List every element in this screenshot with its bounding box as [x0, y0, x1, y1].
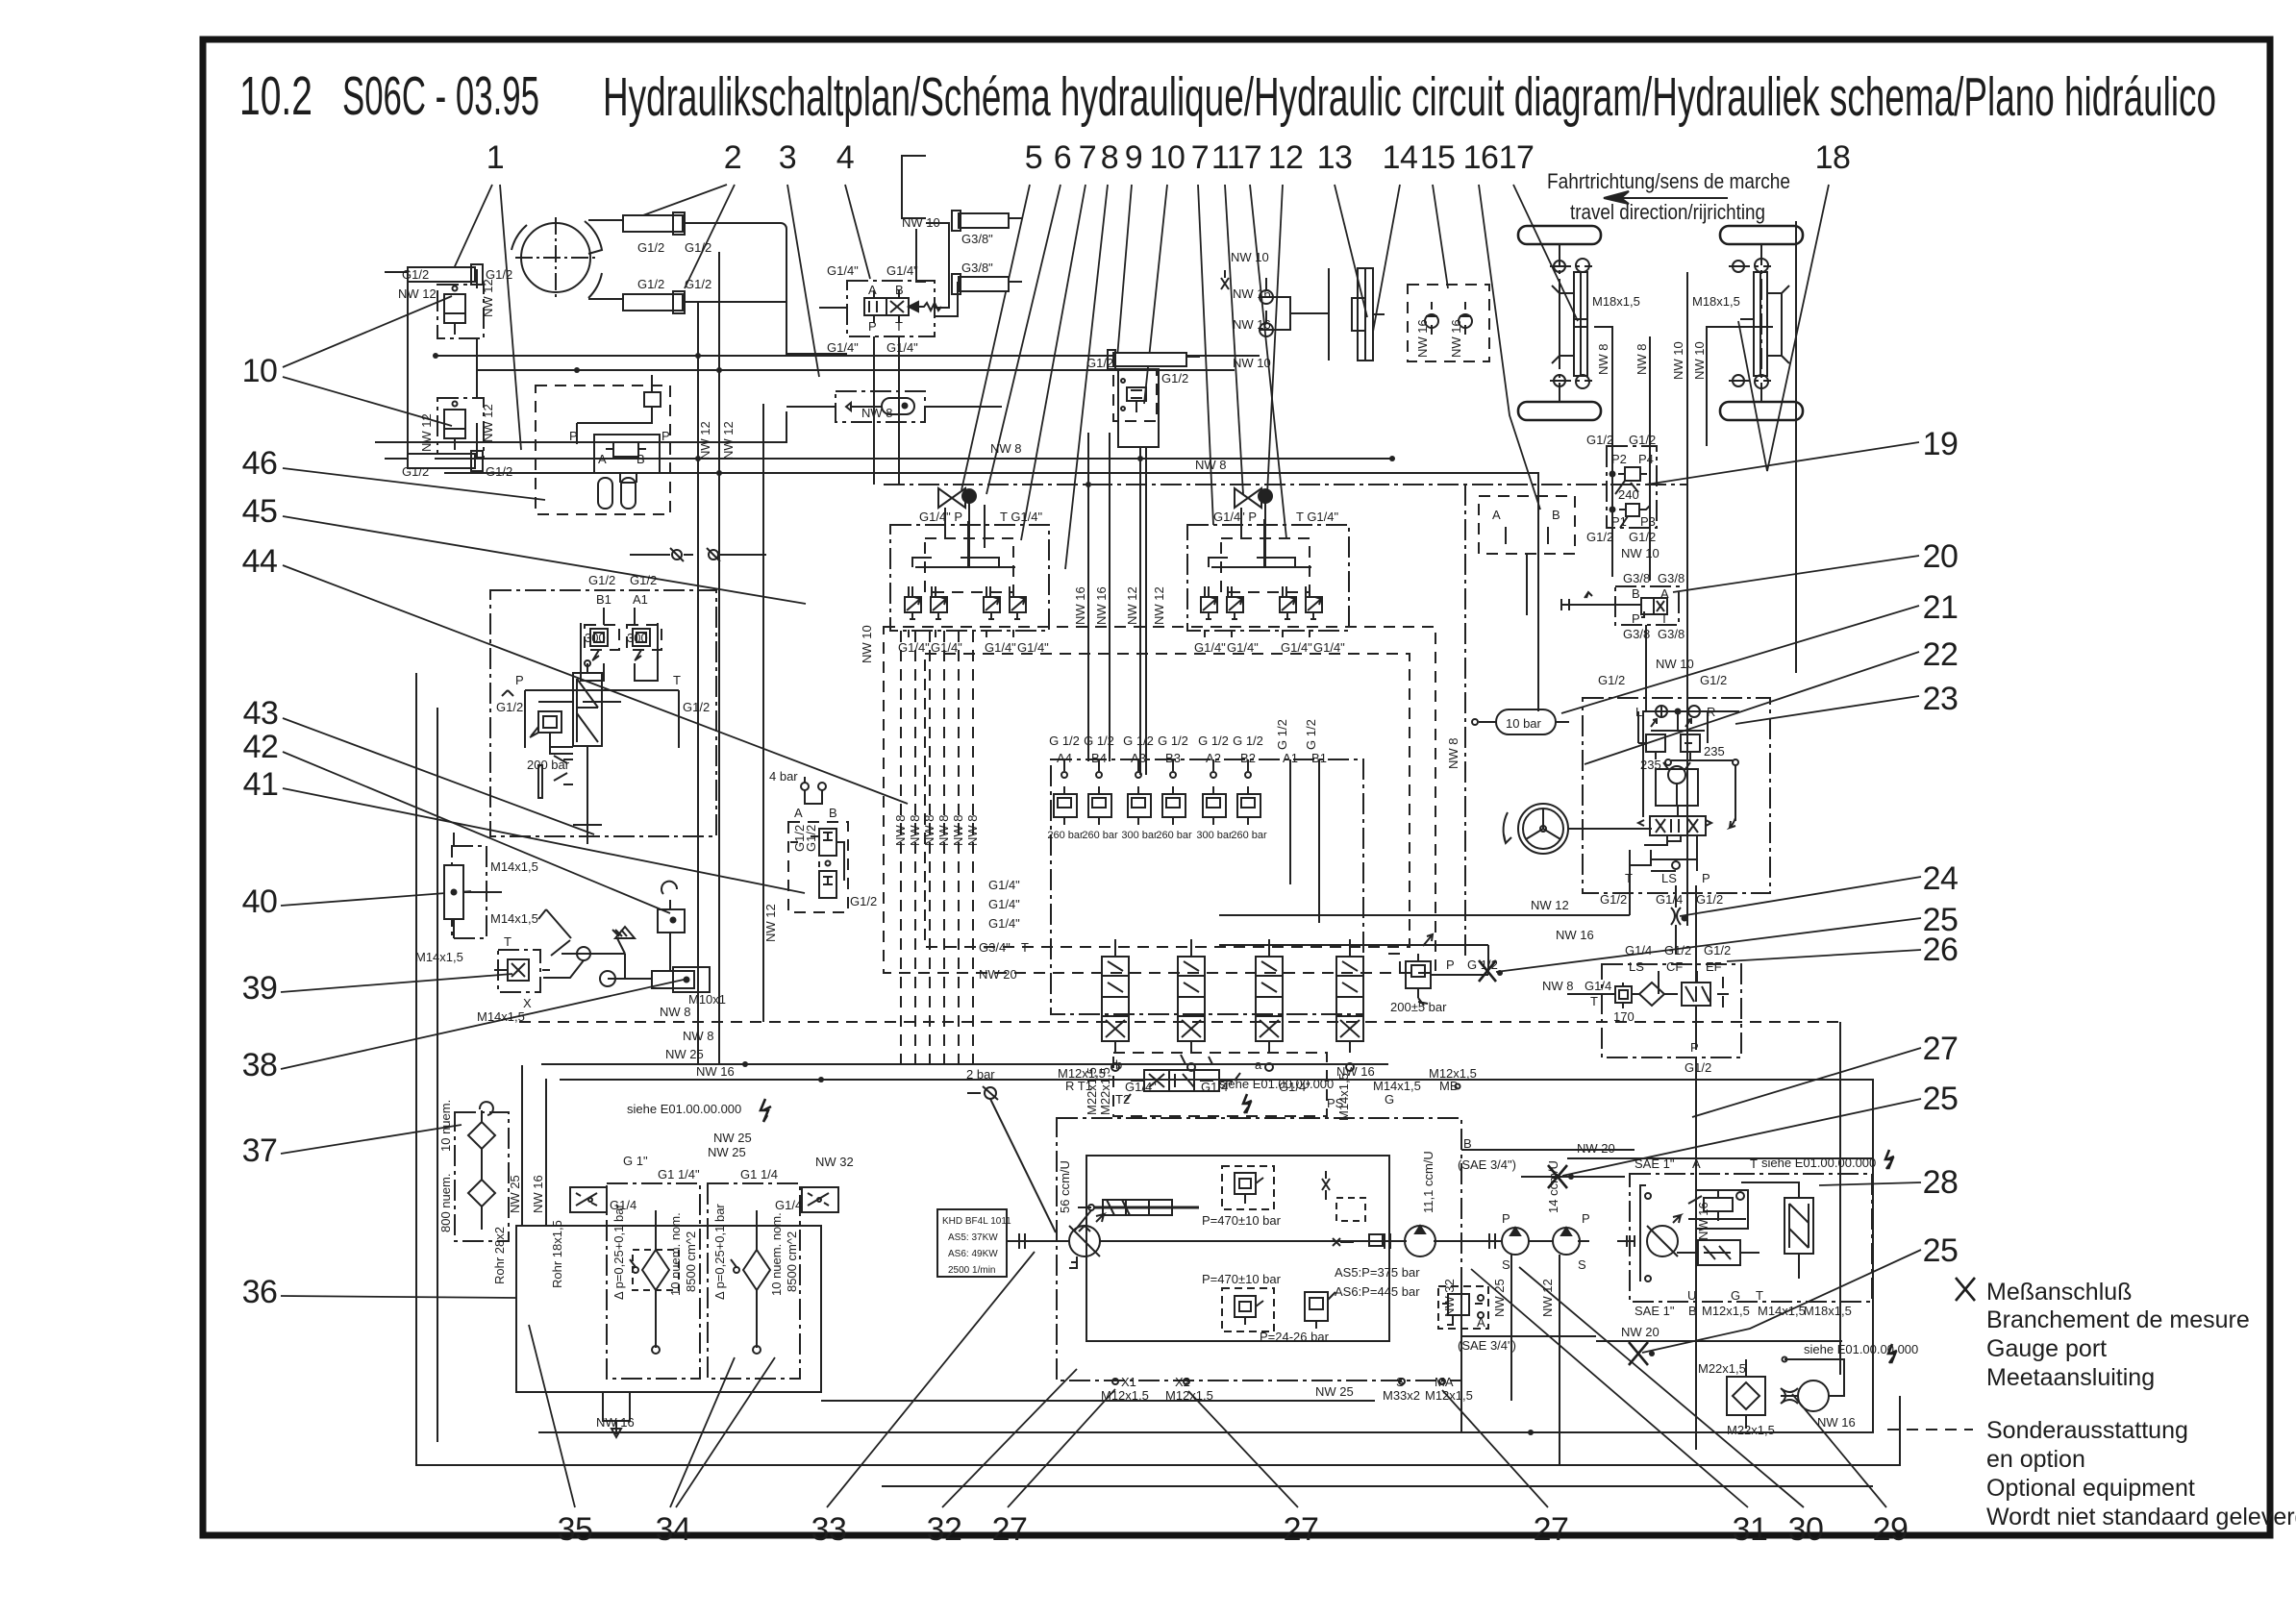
svg-text:NW 8: NW 8: [908, 815, 922, 847]
svg-text:NW 16: NW 16: [1233, 286, 1271, 301]
svg-text:NW 12: NW 12: [1531, 898, 1569, 912]
cylinder 2 bottom: [588, 291, 685, 313]
svg-text:10 nuem. nom.: 10 nuem. nom.: [668, 1212, 683, 1296]
svg-text:G1/2: G1/2: [1704, 943, 1731, 958]
svg-text:G1/4": G1/4": [886, 340, 918, 355]
svg-text:45: 45: [242, 493, 278, 530]
svg-text:NW 8: NW 8: [893, 815, 908, 847]
svg-text:NW 16: NW 16: [531, 1175, 545, 1213]
LS line ports: [1630, 835, 1697, 885]
svg-text:A1: A1: [633, 592, 648, 607]
svg-text:G1/2: G1/2: [1586, 530, 1613, 544]
svg-text:AS5: 37KW: AS5: 37KW: [948, 1232, 998, 1243]
svg-text:44: 44: [242, 543, 278, 580]
svg-text:Rohr 18x1,5: Rohr 18x1,5: [550, 1220, 564, 1288]
svg-text:Fahrtrichtung/sens de marche: Fahrtrichtung/sens de marche: [1547, 169, 1790, 193]
svg-text:T: T: [1660, 611, 1668, 626]
wire left inner rail: [437, 708, 438, 1442]
svg-text:42: 42: [243, 729, 279, 765]
svg-text:P: P: [1690, 1040, 1699, 1055]
wire NW20 right: [1567, 1157, 1873, 1159]
svg-text:(SAE 3/4"): (SAE 3/4"): [1458, 1157, 1516, 1172]
wire NW8 upper: [435, 458, 1391, 460]
svg-text:8500 cm^2: 8500 cm^2: [684, 1231, 698, 1292]
svg-text:M18x1,5: M18x1,5: [1692, 294, 1740, 309]
svg-text:NW 12: NW 12: [721, 421, 736, 460]
piping top-left: [408, 156, 958, 459]
svg-text:G1/4": G1/4": [1281, 640, 1312, 655]
svg-text:4 bar: 4 bar: [769, 769, 798, 784]
svg-text:SAE 1": SAE 1": [1635, 1304, 1675, 1318]
svg-text:P=24-26 bar: P=24-26 bar: [1260, 1330, 1330, 1344]
svg-text:33: 33: [811, 1511, 847, 1548]
steering column: [1568, 828, 1652, 830]
svg-text:20: 20: [1923, 538, 1959, 575]
wire risers 46 box: [577, 375, 652, 438]
svg-text:T: T: [1590, 994, 1598, 1008]
svg-text:A: A: [1492, 508, 1501, 522]
svg-text:T G1/4": T G1/4": [1000, 510, 1043, 524]
svg-text:G1/2: G1/2: [1586, 433, 1613, 447]
trailer valve B/A (item 20): [1615, 586, 1679, 625]
svg-text:36: 36: [242, 1274, 278, 1310]
svg-text:P: P: [515, 673, 524, 687]
legend gauge port: [1956, 1278, 1975, 1301]
svg-text:LS: LS: [1661, 871, 1677, 885]
svg-text:32: 32: [927, 1511, 962, 1548]
hand pump unit 46 dashed box: [536, 386, 670, 514]
svg-text:M22x1,5: M22x1,5: [1727, 1423, 1775, 1437]
relief valve bottom: [1222, 1288, 1274, 1331]
wire NW8 dash-dot drop: [1464, 485, 1466, 957]
svg-text:M14x1,5: M14x1,5: [415, 950, 463, 964]
option dashed enclosure outer: [884, 627, 1435, 973]
svg-text:T: T: [1625, 871, 1633, 885]
svg-text:G1/4": G1/4": [1313, 640, 1345, 655]
brake valve P2 P4: [1607, 446, 1657, 528]
cylinder item 9: [1108, 350, 1200, 369]
svg-text:10 bar: 10 bar: [1506, 716, 1542, 731]
svg-text:28: 28: [1923, 1164, 1959, 1201]
cylinder 2 top: [588, 212, 685, 235]
wire top-left long horizontals: [375, 411, 786, 442]
svg-text:G 1/2: G 1/2: [1123, 734, 1154, 748]
svg-text:G1/4: G1/4: [610, 1198, 636, 1212]
svg-text:10 nuem.: 10 nuem.: [438, 1100, 453, 1152]
filter unit left: [607, 1183, 700, 1379]
pedal assembly: [538, 909, 652, 986]
svg-text:NW 25: NW 25: [708, 1145, 746, 1159]
svg-text:NW 12: NW 12: [419, 413, 434, 452]
svg-text:CF: CF: [1666, 959, 1683, 974]
svg-text:AS5:P=375 bar: AS5:P=375 bar: [1335, 1265, 1420, 1280]
check valve pair box item 15: [1408, 285, 1489, 361]
gear pump 111ccm: [1405, 1226, 1435, 1256]
svg-text:P2: P2: [1611, 452, 1627, 466]
svg-text:NW 8: NW 8: [1446, 738, 1460, 770]
leader lines left callouts: [281, 296, 908, 1298]
svg-text:M22x1,5: M22x1,5: [1098, 1067, 1112, 1115]
lock valve block 10 lower: [437, 398, 484, 458]
front left wheel: [1518, 226, 1601, 244]
svg-text:260 bar: 260 bar: [1231, 830, 1267, 841]
svg-text:39: 39: [242, 970, 278, 1007]
svg-text:25: 25: [1923, 1232, 1959, 1269]
svg-text:8500 cm^2: 8500 cm^2: [785, 1231, 799, 1292]
svg-text:T: T: [895, 319, 903, 334]
rear right wheel: [1720, 402, 1803, 420]
svg-text:AS6:P=445 bar: AS6:P=445 bar: [1335, 1284, 1420, 1299]
svg-text:27: 27: [1284, 1511, 1319, 1548]
svg-text:G1/2: G1/2: [402, 267, 429, 282]
svg-text:X: X: [523, 996, 532, 1010]
svg-text:G1/2: G1/2: [1600, 892, 1627, 907]
svg-text:46: 46: [242, 445, 278, 482]
svg-text:G1/2: G1/2: [685, 240, 711, 255]
svg-text:G1/4": G1/4": [988, 878, 1020, 892]
wire NW25 long: [541, 1063, 1388, 1065]
steering wheel: [1504, 804, 1568, 854]
svg-text:NW 8: NW 8: [951, 815, 965, 847]
svg-text:40: 40: [242, 883, 278, 920]
svg-text:NW 8: NW 8: [936, 815, 951, 847]
svg-text:M14x1,5: M14x1,5: [477, 1009, 525, 1024]
left axle centerline: [1559, 244, 1560, 402]
svg-text:NW 10: NW 10: [1621, 546, 1660, 560]
svg-text:2500 1/min: 2500 1/min: [948, 1265, 995, 1276]
svg-text:NW 32: NW 32: [815, 1155, 854, 1169]
travel motor unit item 28: [1630, 1174, 1872, 1302]
svg-text:X2: X2: [1175, 1375, 1190, 1389]
needle valve + gauge left: [938, 488, 976, 567]
svg-text:30: 30: [1788, 1511, 1824, 1548]
svg-text:Δ p=0,25+0,1 bar: Δ p=0,25+0,1 bar: [712, 1204, 727, 1300]
svg-text:9: 9: [1125, 139, 1142, 176]
solenoid pilot box top: [1113, 1053, 1327, 1116]
svg-text:B: B: [1552, 508, 1560, 522]
svg-text:G3/8: G3/8: [1623, 627, 1650, 641]
svg-text:en option: en option: [1986, 1446, 2085, 1473]
cylinder 1 left-top: [385, 264, 483, 285]
svg-text:P=470±10 bar: P=470±10 bar: [1202, 1213, 1282, 1228]
lock valve block 10 upper: [437, 285, 484, 338]
svg-text:G1/2: G1/2: [1685, 1060, 1711, 1075]
svg-text:14: 14: [1383, 139, 1418, 176]
wire A line pump to motor: [1461, 1335, 1596, 1337]
throttle on LS: [1671, 885, 1687, 954]
svg-text:M12x1,5: M12x1,5: [1702, 1304, 1750, 1318]
suction lines into tank: [522, 1065, 546, 1226]
svg-text:Meßanschluß: Meßanschluß: [1986, 1279, 2132, 1306]
svg-text:T: T: [1756, 1288, 1763, 1303]
svg-text:NW 25: NW 25: [1492, 1279, 1507, 1317]
wire NW16 long: [560, 1080, 1873, 1177]
svg-text:13: 13: [1317, 139, 1353, 176]
svg-text:Gauge port: Gauge port: [1986, 1335, 2107, 1362]
svg-text:G 1/2: G 1/2: [1233, 734, 1263, 748]
right brake cylinder assembly: [1729, 259, 1789, 388]
svg-text:10 nuem. nom.: 10 nuem. nom.: [769, 1212, 784, 1296]
left pilot manifold: [890, 525, 1049, 631]
travel pump enclosure: [1057, 1118, 1461, 1381]
svg-text:Optional equipment: Optional equipment: [1986, 1475, 2195, 1502]
wire long horizontal y385: [477, 369, 1235, 371]
svg-text:31: 31: [1733, 1511, 1768, 1548]
svg-text:300: 300: [627, 631, 648, 645]
left callout numbers: [242, 353, 279, 1310]
shutoff valves left and right: [570, 1187, 838, 1212]
pump P/S 2: [1553, 1228, 1580, 1255]
wire NW25 bottom: [821, 1400, 1375, 1402]
relief valves 235: [1638, 711, 1708, 759]
section dividers and port circles: [1061, 759, 1319, 923]
pump P/S 1: [1502, 1228, 1529, 1255]
svg-text:G1/2: G1/2: [1696, 892, 1723, 907]
svg-text:EF: EF: [1706, 959, 1722, 974]
svg-text:NW 8: NW 8: [965, 815, 980, 847]
svg-text:B: B: [1632, 586, 1640, 601]
NW8 accumulator box: [836, 391, 925, 422]
svg-text:G 1/2: G 1/2: [1304, 719, 1318, 750]
svg-text:G 1/2: G 1/2: [1275, 719, 1289, 750]
svg-text:G1/2: G1/2: [637, 240, 664, 255]
steering priority box item 43: [490, 590, 716, 836]
small cylinders 5 right: [952, 211, 1022, 231]
leader lines top callouts: [450, 185, 1829, 569]
svg-text:G1/2: G1/2: [1664, 943, 1691, 958]
svg-text:22: 22: [1923, 636, 1959, 673]
svg-text:M33x2: M33x2: [1383, 1388, 1420, 1403]
svg-text:T G1/4": T G1/4": [1296, 510, 1339, 524]
svg-text:11: 11: [1211, 139, 1244, 176]
svg-text:NW 12: NW 12: [1125, 586, 1139, 625]
svg-text:NW 16: NW 16: [1233, 317, 1271, 332]
right axle centerline: [1760, 244, 1762, 402]
svg-text:NW 16: NW 16: [696, 1064, 735, 1079]
svg-text:B1: B1: [596, 592, 611, 607]
svg-text:NW 16: NW 16: [1696, 1202, 1710, 1240]
svg-text:G1/2: G1/2: [683, 700, 710, 714]
trailer brake valve item 40: [444, 833, 502, 938]
wire long horizontal y370: [436, 355, 1260, 357]
spool valves: [1102, 939, 1363, 1053]
wire NW12 single: [762, 404, 764, 1022]
svg-text:G1/2: G1/2: [1598, 673, 1625, 687]
svg-text:G1/4": G1/4": [827, 340, 859, 355]
svg-text:7: 7: [1244, 139, 1261, 176]
wire manifold P/T drops: [874, 336, 899, 485]
gauge X marks: [1548, 1165, 1655, 1365]
svg-text:NW 12: NW 12: [698, 421, 712, 460]
right pilot manifold: [1187, 525, 1349, 631]
gauge X left of steering: [1479, 960, 1503, 982]
svg-text:NW 20: NW 20: [1621, 1325, 1660, 1339]
svg-text:siehe E01.00.00.000: siehe E01.00.00.000: [627, 1102, 741, 1116]
svg-text:P=470±10 bar: P=470±10 bar: [1202, 1272, 1282, 1286]
svg-text:6: 6: [1054, 139, 1071, 176]
wire X25 link: [1521, 1176, 1625, 1178]
svg-text:41: 41: [243, 766, 279, 803]
svg-text:260 bar: 260 bar: [1156, 830, 1192, 841]
wire steering P drop: [1695, 885, 1697, 971]
wire NW12 from steering T: [1219, 885, 1630, 915]
check valves on line item 45: [630, 548, 766, 561]
right callout numbers: [1923, 426, 1959, 1269]
svg-text:P: P: [1582, 1211, 1590, 1226]
svg-text:G1/2: G1/2: [630, 573, 657, 587]
svg-text:11,1 ccm/U: 11,1 ccm/U: [1421, 1151, 1435, 1213]
svg-text:NW 16: NW 16: [1336, 1064, 1375, 1079]
top callout numbers: [487, 139, 1851, 176]
svg-text:KHD BF4L 1011: KHD BF4L 1011: [942, 1216, 1011, 1227]
svg-text:NW 8: NW 8: [683, 1029, 714, 1043]
svg-text:Meetaansluiting: Meetaansluiting: [1986, 1364, 2155, 1391]
wire to NW8 box: [786, 406, 836, 408]
svg-text:38: 38: [242, 1047, 278, 1083]
svg-text:G1/4": G1/4": [985, 640, 1016, 655]
svg-text:NW 20: NW 20: [1577, 1141, 1615, 1156]
inching valve item 39: [498, 950, 540, 992]
svg-text:NW 16: NW 16: [1094, 586, 1109, 625]
steering orbital circle: [512, 217, 602, 298]
svg-text:56 ccm/U: 56 ccm/U: [1058, 1160, 1072, 1213]
2 bar check: [967, 1086, 998, 1100]
svg-text:29: 29: [1873, 1511, 1909, 1548]
svg-text:G1/4" P: G1/4" P: [1213, 510, 1257, 524]
aux pump suction lines: [1460, 1267, 1462, 1432]
svg-text:G1/4: G1/4: [1656, 892, 1683, 907]
svg-text:Branchement de mesure: Branchement de mesure: [1986, 1306, 2250, 1333]
svg-text:2: 2: [724, 139, 741, 176]
shuttle + solenoid top right: [1322, 1171, 1383, 1246]
svg-text:P3: P3: [1640, 514, 1656, 529]
svg-text:235: 235: [1704, 744, 1725, 759]
svg-text:S: S: [1578, 1257, 1586, 1272]
svg-text:AS6: 49KW: AS6: 49KW: [948, 1249, 998, 1259]
svg-text:Rohr 28x2: Rohr 28x2: [492, 1227, 507, 1284]
svg-text:23: 23: [1923, 681, 1959, 717]
wire NW16 pair center: [1087, 433, 1089, 761]
svg-text:NW 16: NW 16: [1073, 586, 1087, 625]
svg-text:G1/2: G1/2: [637, 277, 664, 291]
tank assembly: [516, 1226, 821, 1392]
drive shaft: [1007, 1233, 1589, 1249]
svg-text:27: 27: [1534, 1511, 1569, 1548]
svg-text:NW 16: NW 16: [1556, 928, 1594, 942]
wire bottom extra rail: [882, 1485, 1873, 1487]
svg-text:M12x1,5: M12x1,5: [1425, 1388, 1473, 1403]
svg-text:G1/4": G1/4": [1227, 640, 1259, 655]
variable pump 56ccm: [1069, 1214, 1104, 1268]
wire NW8 dashed long: [519, 1021, 1840, 1023]
svg-text:G1/2: G1/2: [804, 825, 818, 852]
svg-text:G1/4: G1/4: [1585, 979, 1611, 993]
svg-text:G 1/2: G 1/2: [1158, 734, 1188, 748]
valve 4 A/B: [847, 281, 935, 336]
svg-text:(SAE 3/4"): (SAE 3/4"): [1458, 1338, 1516, 1353]
svg-text:7: 7: [1079, 139, 1096, 176]
svg-text:800 nuem.: 800 nuem.: [438, 1174, 453, 1232]
svg-text:B: B: [829, 806, 837, 820]
svg-text:U: U: [1687, 1288, 1696, 1303]
svg-text:NW 25: NW 25: [713, 1131, 752, 1145]
svg-text:P4: P4: [1638, 452, 1654, 466]
svg-text:NW 8: NW 8: [1596, 344, 1610, 376]
svg-text:25: 25: [1923, 1081, 1959, 1117]
svg-text:G3/8: G3/8: [1658, 627, 1685, 641]
svg-text:27: 27: [992, 1511, 1028, 1548]
priority valve unit LS CF EF: [1602, 964, 1741, 1057]
svg-text:A: A: [1477, 1315, 1485, 1330]
section port labels: [1049, 734, 1327, 765]
svg-text:M14x1,5: M14x1,5: [1758, 1304, 1806, 1318]
svg-text:M14x1,5: M14x1,5: [1373, 1079, 1421, 1093]
svg-text:S06C - 03.95: S06C - 03.95: [342, 65, 539, 127]
svg-text:G1/4": G1/4": [898, 640, 930, 655]
svg-text:NW 10: NW 10: [1231, 250, 1269, 264]
item 13 linkage: [1273, 268, 1329, 361]
svg-text:NW 10: NW 10: [860, 625, 874, 663]
steering spool: [1638, 806, 1711, 845]
travel direction arrow: [1604, 191, 1728, 204]
svg-text:NW 12: NW 12: [763, 904, 778, 942]
pedal linkage item 42: [538, 756, 602, 844]
svg-text:P: P: [1702, 871, 1710, 885]
svg-text:S: S: [1396, 1375, 1405, 1389]
svg-text:NW 25: NW 25: [665, 1047, 704, 1061]
boost valves: [1305, 1286, 1488, 1329]
svg-text:G 1/2: G 1/2: [1198, 734, 1229, 748]
svg-text:10: 10: [1150, 139, 1185, 176]
svg-text:24: 24: [1923, 860, 1959, 897]
wire NW12 pair center: [1139, 448, 1141, 775]
svg-text:G3/8: G3/8: [1658, 571, 1685, 585]
svg-text:260 bar: 260 bar: [1082, 830, 1118, 841]
svg-text:A: A: [1660, 586, 1669, 601]
legend optional equipment dash sample: [1887, 1429, 1973, 1430]
junction dots: [695, 456, 1534, 1435]
svg-text:NW 8: NW 8: [1635, 344, 1649, 376]
option dashed enclosure inner: [925, 654, 1410, 947]
svg-text:M22x1,5: M22x1,5: [1698, 1361, 1746, 1376]
svg-text:300 bar: 300 bar: [1196, 830, 1233, 841]
svg-text:15: 15: [1420, 139, 1456, 176]
svg-text:G1/4: G1/4: [775, 1198, 802, 1212]
lightning bolt above throttle: [1668, 893, 1670, 895]
relief valve top: [1222, 1166, 1274, 1209]
svg-text:16: 16: [1463, 139, 1499, 176]
wire NW20 lower right: [1596, 1340, 1842, 1342]
brake lines vertical: [1594, 272, 1773, 926]
wire NW8 second: [444, 473, 1538, 711]
front right wheel: [1720, 226, 1803, 244]
svg-text:4: 4: [836, 139, 854, 176]
needle valve + gauge right: [1235, 488, 1272, 567]
wire left vertical pair NW12: [697, 302, 699, 1064]
wire bottom rail: [416, 673, 1900, 1465]
10 bar oval: [1496, 709, 1556, 734]
svg-text:NW 8: NW 8: [990, 441, 1022, 456]
svg-text:G1/2: G1/2: [1161, 371, 1188, 386]
gerotor: [1656, 759, 1738, 828]
wire right drops to cooler: [1839, 1022, 1841, 1375]
svg-text:G1 1/4: G1 1/4: [740, 1167, 778, 1182]
main relief 200 bar: [1406, 934, 1433, 998]
svg-text:S: S: [1502, 1257, 1510, 1272]
svg-text:NW 16: NW 16: [596, 1415, 635, 1430]
svg-text:35: 35: [558, 1511, 593, 1548]
svg-text:NW 12: NW 12: [481, 279, 495, 317]
